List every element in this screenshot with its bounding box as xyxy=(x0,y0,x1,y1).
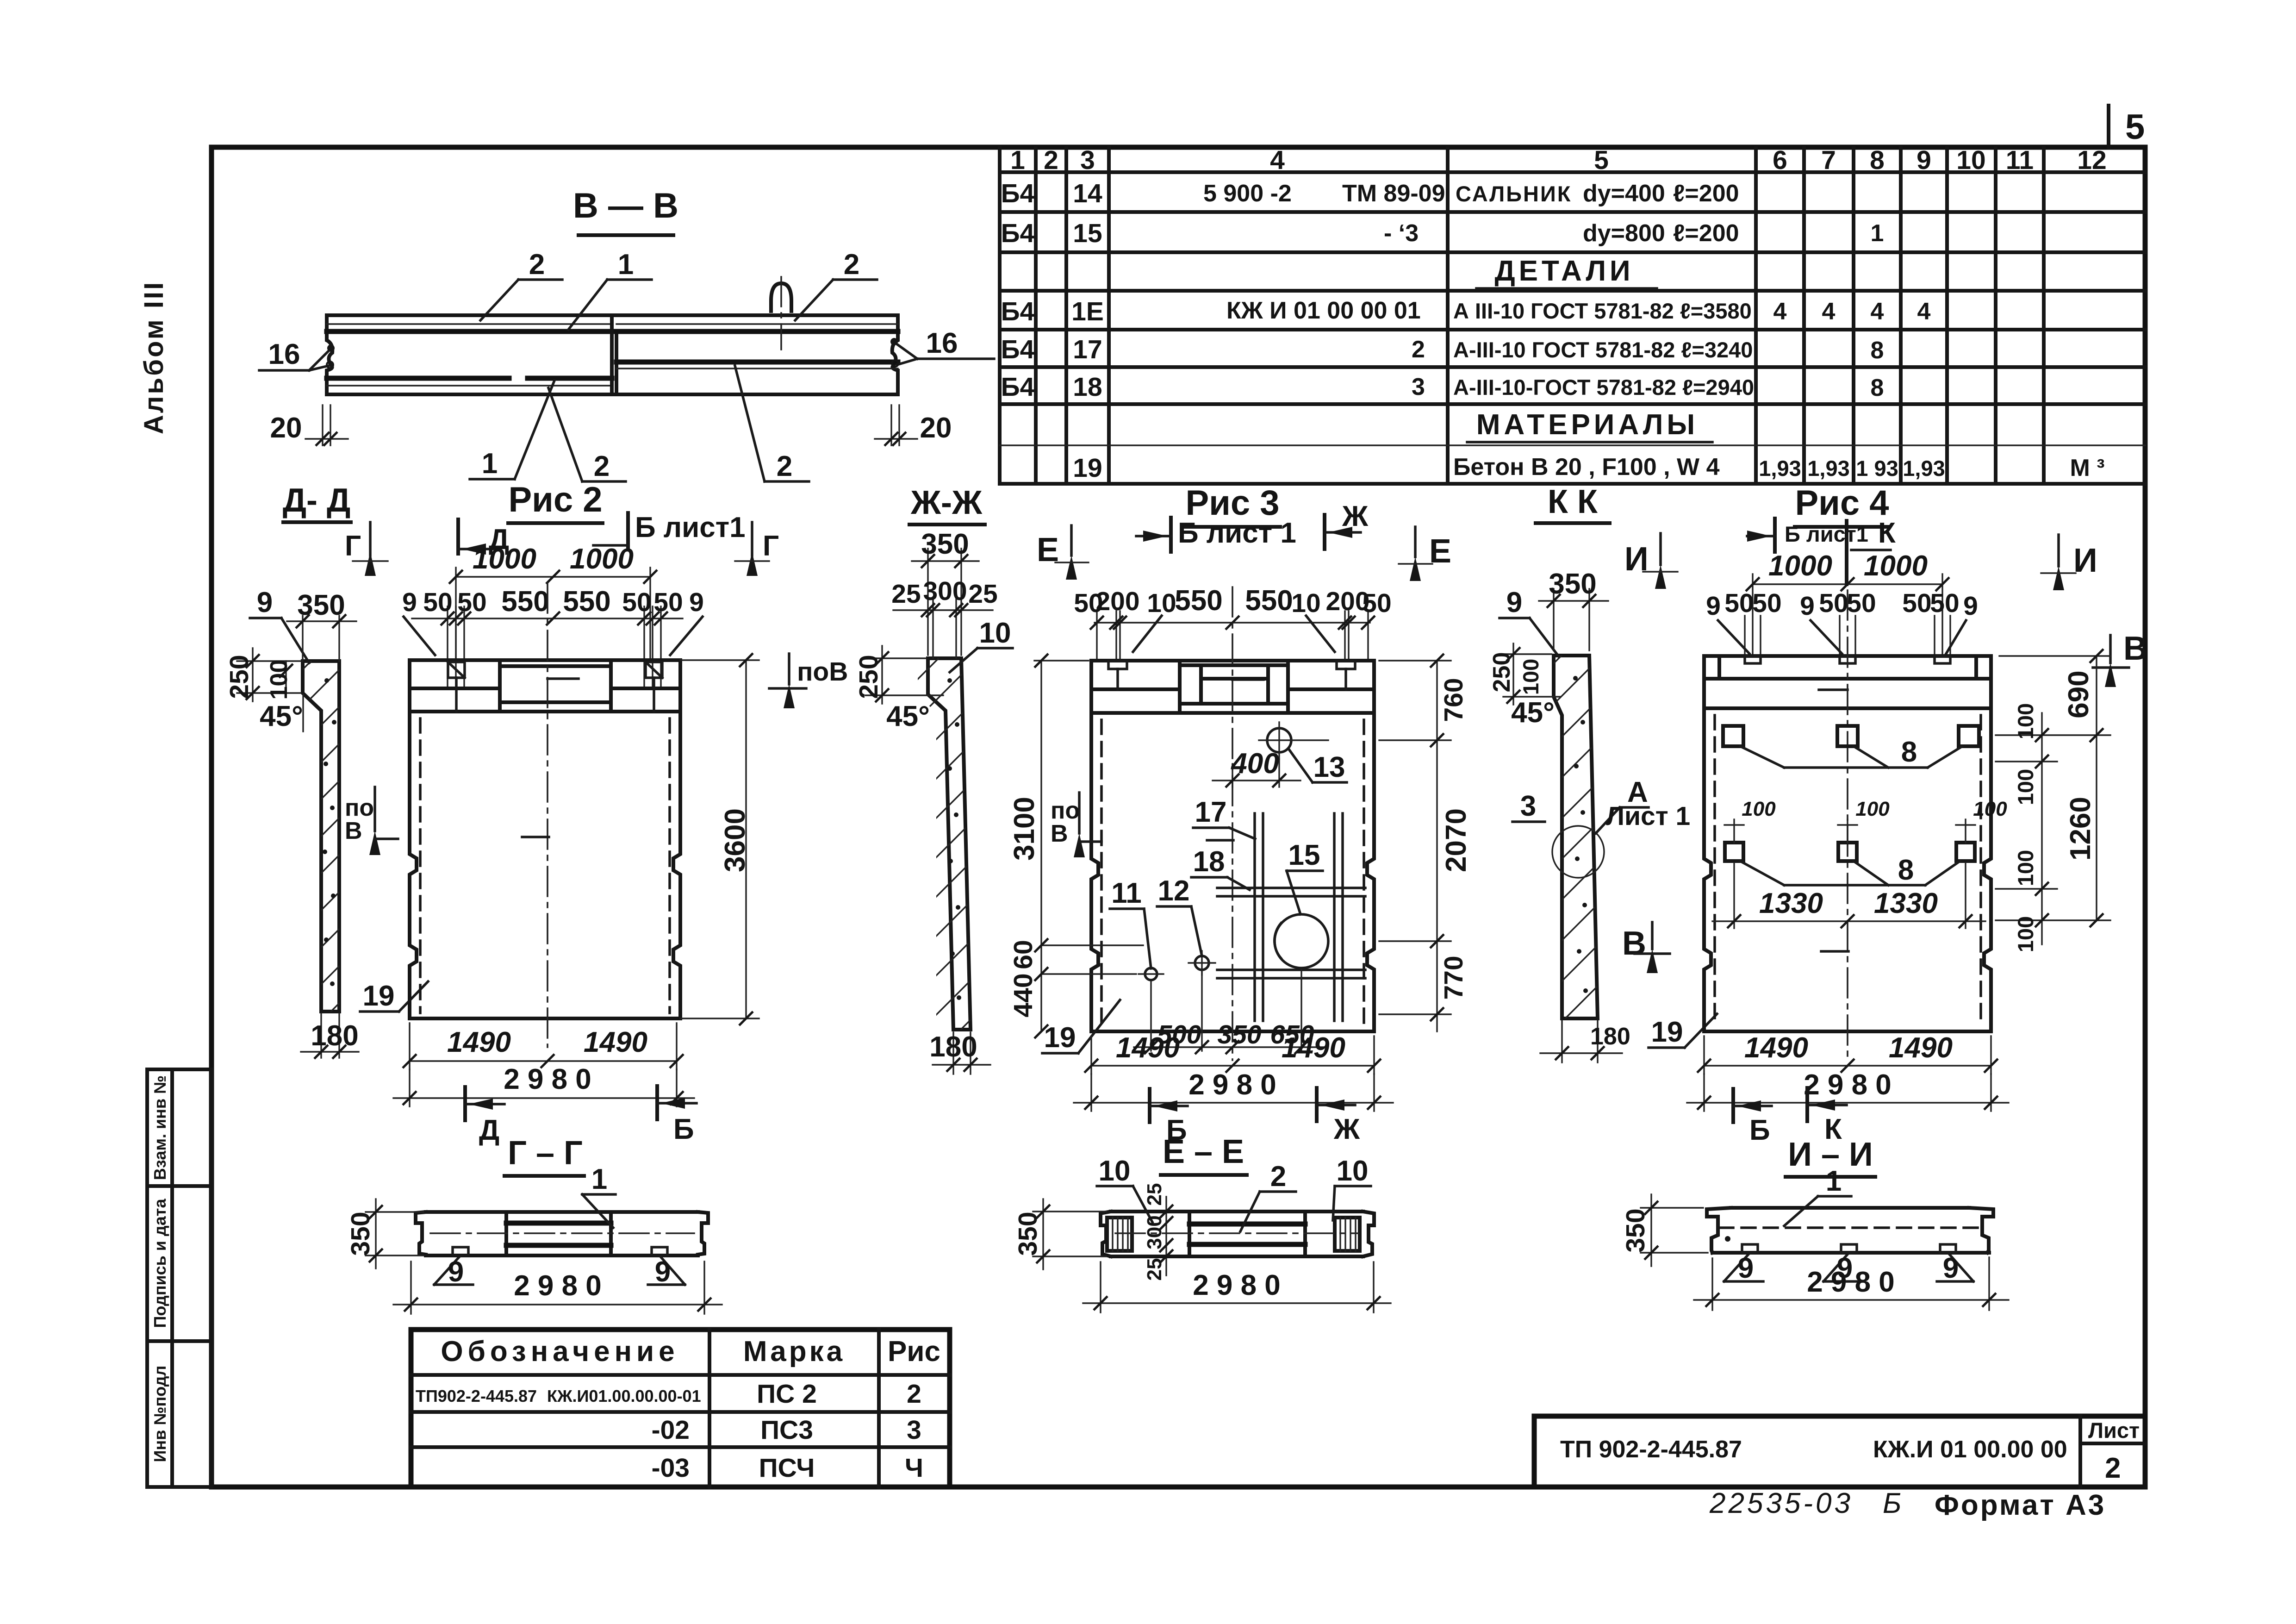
svg-text:180: 180 xyxy=(929,1031,977,1063)
svg-text:Лист 1: Лист 1 xyxy=(1606,801,1690,831)
dim 2980 (E-E) xyxy=(1100,1262,1101,1312)
svg-text:690: 690 xyxy=(2063,670,2095,718)
svg-text:А III-10 ГОСТ 5781-82 ℓ=358: А III-10 ГОСТ 5781-82 ℓ=3580 xyxy=(1453,299,1752,323)
marker B bottom (Ris3) xyxy=(1148,1089,1151,1122)
dim 350 (G-G) xyxy=(366,1211,423,1212)
anchor loops Ris2 xyxy=(448,662,662,712)
svg-text:4: 4 xyxy=(1270,145,1285,175)
svg-text:Б4: Б4 xyxy=(1001,179,1035,208)
svg-text:В: В xyxy=(1051,820,1068,847)
svg-text:1,93: 1,93 xyxy=(1807,456,1849,481)
svg-text:300: 300 xyxy=(923,576,967,606)
svg-text:2 9 8 0: 2 9 8 0 xyxy=(504,1063,591,1095)
svg-text:3600: 3600 xyxy=(719,808,751,872)
dims 760 2070 770 (Ris3 right) xyxy=(1379,660,1451,661)
marker Zh (Ris3 top) xyxy=(1323,515,1326,549)
svg-text:250: 250 xyxy=(1488,652,1515,693)
svg-text:760: 760 xyxy=(1439,678,1468,722)
svg-text:1490: 1490 xyxy=(584,1026,647,1058)
svg-text:-02: -02 xyxy=(652,1415,690,1445)
svg-text:2: 2 xyxy=(1044,145,1058,175)
svg-text:2: 2 xyxy=(1412,336,1425,363)
svg-text:550: 550 xyxy=(501,586,549,618)
svg-text:Д- Д: Д- Д xyxy=(283,482,351,519)
drawing frame xyxy=(212,147,2145,1487)
svg-text:50: 50 xyxy=(457,587,486,617)
section Zh-Zh hatched strip xyxy=(884,602,995,1224)
svg-text:1490: 1490 xyxy=(1116,1032,1180,1064)
dim 350 Zh-Zh xyxy=(927,549,928,655)
svg-text:1: 1 xyxy=(1826,1165,1842,1197)
svg-text:Обозначение: Обозначение xyxy=(441,1336,679,1368)
svg-text:1: 1 xyxy=(591,1163,607,1195)
dims 100 100 over row2 (Ris4) xyxy=(1724,819,1975,843)
svg-text:10: 10 xyxy=(1291,588,1320,618)
dim 1330 1330 (Ris4) xyxy=(1733,863,1735,928)
svg-text:50: 50 xyxy=(1752,588,1781,618)
leader 8 row2 (Ris4) xyxy=(1740,861,1784,885)
flag 9 left (G-G) xyxy=(434,1255,460,1285)
svg-text:2: 2 xyxy=(529,249,545,281)
section E-E slab xyxy=(1101,1212,1374,1256)
dim 1000 1000 (Ris2 top) xyxy=(456,576,650,577)
dim 2980 (Ris4) xyxy=(1703,1074,1705,1111)
dims 25 300 25 (E-E) xyxy=(1165,1197,1167,1275)
svg-text:19: 19 xyxy=(1044,1022,1076,1054)
svg-text:8: 8 xyxy=(1870,145,1885,175)
svg-text:550: 550 xyxy=(563,586,610,618)
svg-text:25: 25 xyxy=(1143,1183,1166,1206)
dim 350 (E-E) xyxy=(1033,1211,1106,1212)
svg-text:50: 50 xyxy=(1930,588,1959,618)
svg-text:Г: Г xyxy=(345,530,361,562)
svg-text:1490: 1490 xyxy=(447,1026,511,1058)
svg-text:Альбом III: Альбом III xyxy=(139,281,169,434)
svg-text:Формат А3: Формат А3 xyxy=(1935,1489,2106,1521)
svg-text:20: 20 xyxy=(920,412,952,444)
svg-text:9: 9 xyxy=(1963,591,1978,621)
dim 25 300 25 Zh-Zh xyxy=(932,597,933,658)
Ris2 plan top band xyxy=(410,660,680,712)
svg-text:Ж-Ж: Ж-Ж xyxy=(910,484,983,521)
svg-text:Инв №подл: Инв №подл xyxy=(150,1366,169,1462)
svg-text:180: 180 xyxy=(1590,1023,1630,1050)
svg-text:9: 9 xyxy=(1916,145,1931,175)
svg-text:12: 12 xyxy=(2077,145,2106,175)
svg-text:100: 100 xyxy=(2013,769,2038,805)
hole 11 (Ris3) xyxy=(1145,968,1157,980)
svg-text:8: 8 xyxy=(1871,375,1884,401)
dim 350 (I-I) xyxy=(1641,1207,1703,1208)
svg-text:550: 550 xyxy=(1175,585,1222,617)
svg-text:9: 9 xyxy=(1800,591,1815,621)
svg-text:45°: 45° xyxy=(1511,697,1555,729)
svg-text:2070: 2070 xyxy=(1440,808,1472,872)
svg-text:Б: Б xyxy=(1749,1114,1770,1146)
svg-text:Б: Б xyxy=(673,1113,694,1145)
svg-text:Марка: Марка xyxy=(743,1336,845,1368)
svg-text:350: 350 xyxy=(1549,568,1596,600)
svg-text:16: 16 xyxy=(268,338,300,370)
svg-text:100: 100 xyxy=(2013,916,2038,952)
dim 2980 (I-I) xyxy=(1711,1258,1713,1310)
svg-text:8: 8 xyxy=(1871,337,1884,364)
svg-text:50: 50 xyxy=(622,587,651,617)
svg-text:1260: 1260 xyxy=(2065,797,2097,861)
svg-text:12: 12 xyxy=(1158,875,1190,907)
svg-text:ТП902-2-445.87: ТП902-2-445.87 xyxy=(416,1387,537,1405)
lifting hook on B-B xyxy=(771,277,791,350)
svg-text:11: 11 xyxy=(1111,877,1142,909)
square holes row2 (Ris4) xyxy=(1725,843,1975,861)
section G-G slab xyxy=(416,1212,708,1255)
svg-text:25: 25 xyxy=(1143,1258,1166,1281)
svg-text:4: 4 xyxy=(1822,298,1836,325)
svg-text:5: 5 xyxy=(1594,145,1609,175)
svg-text:9: 9 xyxy=(448,1256,464,1288)
svg-text:Г – Г: Г – Г xyxy=(508,1135,583,1172)
dim 350 D-D xyxy=(302,616,303,661)
svg-text:25: 25 xyxy=(968,579,997,609)
svg-text:2 9 8 0: 2 9 8 0 xyxy=(1188,1069,1276,1101)
marker D bottom (Ris2) xyxy=(463,1087,467,1120)
svg-text:1: 1 xyxy=(618,249,634,281)
svg-text:14: 14 xyxy=(1073,179,1102,208)
svg-text:КЖ.И 01 00.00 00: КЖ.И 01 00.00 00 xyxy=(1873,1436,2067,1463)
svg-text:Лист: Лист xyxy=(2088,1418,2140,1443)
svg-text:350: 350 xyxy=(1013,1212,1043,1255)
svg-text:1000: 1000 xyxy=(473,543,536,575)
svg-text:17: 17 xyxy=(1195,796,1227,828)
svg-text:2: 2 xyxy=(907,1379,921,1409)
svg-text:В: В xyxy=(1622,925,1646,962)
flag 9 right (G-G) xyxy=(660,1255,685,1285)
svg-text:770: 770 xyxy=(1439,956,1468,999)
svg-text:18: 18 xyxy=(1193,846,1225,878)
svg-text:ПСЧ: ПСЧ xyxy=(759,1453,815,1483)
svg-text:200: 200 xyxy=(1095,587,1139,616)
dim 3100 and po V (Ris3 left) xyxy=(1040,661,1042,1031)
svg-text:ПС3: ПС3 xyxy=(760,1415,813,1445)
dim 180 K-K xyxy=(1561,1021,1562,1062)
svg-text:ТП 902-2-445.87: ТП 902-2-445.87 xyxy=(1560,1436,1742,1463)
svg-text:1 93: 1 93 xyxy=(1856,456,1898,481)
svg-text:В: В xyxy=(345,818,362,844)
svg-text:50: 50 xyxy=(1847,588,1876,618)
svg-text:4: 4 xyxy=(1917,298,1931,325)
svg-text:1000: 1000 xyxy=(1768,550,1832,582)
svg-text:9: 9 xyxy=(257,587,273,618)
big hole 15 (Ris3) xyxy=(1275,914,1328,968)
specification table bottom left xyxy=(411,1330,950,1487)
svg-text:ТМ 89-09: ТМ 89-09 xyxy=(1342,180,1445,207)
svg-text:100: 100 xyxy=(1973,798,2007,820)
svg-text:Б лист1: Б лист1 xyxy=(1785,522,1868,546)
svg-text:8: 8 xyxy=(1898,854,1914,886)
dim 180 D-D xyxy=(320,1014,322,1058)
dims 500 350 650 (Ris3 bottom) xyxy=(1150,981,1151,1051)
section I-I slab xyxy=(1707,1208,1993,1253)
dim row 9 50 50 550 550 50 50 9 (Ris2) xyxy=(412,618,683,619)
svg-text:5: 5 xyxy=(2125,107,2145,147)
svg-text:50: 50 xyxy=(1902,588,1931,618)
svg-text:16: 16 xyxy=(926,327,958,359)
dim 2980 (Ris3) xyxy=(1090,1074,1092,1111)
svg-text:Г: Г xyxy=(763,530,779,562)
dim 1000 1000 (Ris4 top) xyxy=(1753,583,1942,585)
marker D top (Ris2) xyxy=(456,519,460,554)
marker B list1 (Ris4 top) xyxy=(1773,518,1777,552)
svg-text:350: 350 xyxy=(1621,1208,1650,1252)
svg-text:К: К xyxy=(1878,517,1896,549)
detail circle A List1 (K-K) xyxy=(1552,826,1604,878)
svg-text:1,93: 1,93 xyxy=(1759,456,1801,481)
svg-text:10: 10 xyxy=(1956,145,1985,175)
svg-text:dу=800: dу=800 xyxy=(1583,220,1665,247)
svg-text:100: 100 xyxy=(1518,659,1543,695)
svg-text:В: В xyxy=(2123,630,2147,667)
svg-text:1: 1 xyxy=(1010,145,1025,175)
svg-text:Бетон В 20 , F100 , W 4: Бетон В 20 , F100 , W 4 xyxy=(1453,454,1720,481)
svg-text:ДЕТАЛИ: ДЕТАЛИ xyxy=(1494,255,1634,287)
svg-text:3100: 3100 xyxy=(1008,797,1040,861)
marker B list1 top (Ris2) xyxy=(626,513,630,547)
svg-text:19: 19 xyxy=(1651,1016,1683,1048)
svg-text:1490: 1490 xyxy=(1744,1032,1808,1064)
svg-text:ℓ=200: ℓ=200 xyxy=(1673,220,1739,247)
svg-text:60: 60 xyxy=(1008,940,1038,969)
svg-text:поВ: поВ xyxy=(797,657,848,687)
po V marker right of Ris2 xyxy=(769,654,848,708)
dim row 9 50 50 x3 (Ris4) xyxy=(1745,616,1950,656)
svg-text:50: 50 xyxy=(1362,588,1391,618)
svg-text:КЖ И 01 00 00 01: КЖ И 01 00 00 01 xyxy=(1226,297,1421,324)
svg-text:САЛЬНИК: САЛЬНИК xyxy=(1456,181,1572,206)
svg-text:7: 7 xyxy=(1821,145,1836,175)
svg-text:100: 100 xyxy=(1742,798,1776,820)
square holes row1 (Ris4) xyxy=(1723,726,1979,746)
dim 20 left of B-B xyxy=(270,405,348,446)
dim row 50 200 10 550 550 10 200 50 (Ris3 top) xyxy=(1095,622,1370,623)
svg-text:1330: 1330 xyxy=(1874,887,1938,919)
svg-text:2 9 8 0: 2 9 8 0 xyxy=(1804,1069,1892,1101)
section D-D hatched strip xyxy=(259,602,370,1120)
left stamp column xyxy=(147,1069,212,1487)
svg-text:1490: 1490 xyxy=(1282,1032,1345,1064)
svg-text:Ж: Ж xyxy=(1342,500,1369,532)
svg-text:А-III-10 ГОСТ 5781-82 ℓ=3240: А-III-10 ГОСТ 5781-82 ℓ=3240 xyxy=(1453,337,1753,362)
svg-text:2: 2 xyxy=(1270,1161,1286,1193)
svg-text:Рис: Рис xyxy=(888,1336,940,1368)
marker K bottom (Ris4) xyxy=(1805,1088,1809,1121)
svg-text:15: 15 xyxy=(1073,219,1102,248)
svg-text:Б: Б xyxy=(1883,1487,1901,1519)
svg-text:dу=400: dу=400 xyxy=(1583,180,1665,207)
svg-text:М ³: М ³ xyxy=(2070,455,2104,481)
svg-text:350: 350 xyxy=(921,528,969,560)
svg-text:Рис 2: Рис 2 xyxy=(508,480,602,519)
dim 400 and label 13 (Ris3) xyxy=(1232,764,1233,787)
svg-text:2 9 8 0: 2 9 8 0 xyxy=(1807,1266,1895,1298)
svg-text:2: 2 xyxy=(2105,1452,2121,1484)
marker B bottom (Ris4) xyxy=(1731,1089,1735,1122)
svg-text:Б лист1: Б лист1 xyxy=(635,512,746,543)
svg-text:350: 350 xyxy=(297,589,345,621)
svg-text:9: 9 xyxy=(1943,1252,1959,1284)
svg-text:Б4: Б4 xyxy=(1001,219,1035,248)
dim 180 Zh-Zh xyxy=(952,1032,954,1074)
dims 60 440 (Ris3 left bottom) xyxy=(1041,944,1143,946)
dims 250 100 D-D xyxy=(237,660,301,662)
svg-text:550: 550 xyxy=(1245,585,1293,617)
svg-text:4: 4 xyxy=(1871,298,1884,325)
svg-text:ℓ=200: ℓ=200 xyxy=(1673,180,1739,207)
svg-text:100: 100 xyxy=(2013,703,2038,739)
svg-text:Б4: Б4 xyxy=(1001,372,1035,402)
svg-text:Рис 4: Рис 4 xyxy=(1795,483,1889,523)
svg-text:МАТЕРИАЛЫ: МАТЕРИАЛЫ xyxy=(1476,409,1699,441)
svg-text:11: 11 xyxy=(2006,145,2034,175)
svg-text:10: 10 xyxy=(979,617,1011,649)
svg-text:9: 9 xyxy=(689,587,704,617)
hole 12 (Ris3) xyxy=(1195,956,1209,970)
svg-text:19: 19 xyxy=(1073,453,1102,483)
svg-text:8: 8 xyxy=(1901,736,1917,768)
svg-text:250: 250 xyxy=(854,655,884,699)
svg-text:45°: 45° xyxy=(260,700,303,732)
svg-text:E – E: E – E xyxy=(1163,1133,1244,1170)
svg-text:19: 19 xyxy=(363,980,395,1012)
svg-text:50: 50 xyxy=(653,587,683,617)
parts table grid xyxy=(1000,148,2145,484)
svg-text:50: 50 xyxy=(1724,588,1754,618)
Ris3 plan top band xyxy=(1091,661,1374,713)
section K-K hatched strip xyxy=(1509,593,1624,1238)
svg-text:1: 1 xyxy=(1871,220,1884,247)
svg-text:9: 9 xyxy=(402,587,417,617)
leader 8 row1 (Ris4) xyxy=(1740,746,1784,768)
svg-text:17: 17 xyxy=(1073,335,1102,364)
svg-text:Взам. инв №: Взам. инв № xyxy=(150,1075,169,1180)
dim 2980 (Ris2 bottom) xyxy=(409,1069,410,1106)
svg-text:2: 2 xyxy=(594,450,610,482)
flag 9 x3 (I-I) xyxy=(1724,1253,1750,1281)
svg-text:Д: Д xyxy=(479,1114,499,1146)
svg-text:Б4: Б4 xyxy=(1001,335,1035,364)
svg-text:9: 9 xyxy=(1738,1252,1754,1284)
svg-text:2: 2 xyxy=(777,450,792,482)
svg-text:Б4: Б4 xyxy=(1001,297,1035,326)
svg-text:3: 3 xyxy=(1412,374,1425,400)
svg-text:50: 50 xyxy=(423,587,452,617)
dim 1490 1490 (Ris2 bottom) xyxy=(409,1023,410,1069)
svg-text:6: 6 xyxy=(1773,145,1787,175)
dim 250 Zh-Zh xyxy=(865,657,926,659)
svg-text:Подпись и дата: Подпись и дата xyxy=(150,1199,169,1328)
Ris3 plan body xyxy=(1091,587,1374,1060)
page number 5 xyxy=(2107,106,2110,147)
svg-text:3: 3 xyxy=(1080,145,1095,175)
dims 250 100 (K-K left) xyxy=(1503,653,1551,655)
svg-text:ПС 2: ПС 2 xyxy=(757,1379,817,1409)
svg-text:2: 2 xyxy=(844,249,859,281)
svg-text:А-III-10-ГОСТ 5781-82 ℓ=2940: А-III-10-ГОСТ 5781-82 ℓ=2940 xyxy=(1453,375,1754,400)
svg-text:4: 4 xyxy=(1773,298,1787,325)
svg-text:10: 10 xyxy=(1337,1155,1369,1187)
svg-text:10: 10 xyxy=(1099,1155,1131,1187)
Ris4 plan body xyxy=(1704,590,1991,1060)
svg-text:1: 1 xyxy=(482,448,498,480)
dim 3600 (Ris2 right) xyxy=(680,659,759,661)
svg-text:9: 9 xyxy=(1706,591,1721,621)
svg-text:- ʻ3: - ʻ3 xyxy=(1384,220,1419,247)
svg-text:1330: 1330 xyxy=(1759,887,1823,919)
svg-text:15: 15 xyxy=(1288,839,1320,871)
parts table rows text xyxy=(1001,179,1104,483)
dims 690 1260 100s (Ris4 right) xyxy=(1999,655,2110,656)
svg-text:250: 250 xyxy=(224,655,254,699)
svg-text:1490: 1490 xyxy=(1889,1032,1953,1064)
svg-text:50: 50 xyxy=(1819,588,1848,618)
Ris4 plan top band xyxy=(1704,656,1991,708)
svg-text:440: 440 xyxy=(1008,973,1038,1017)
svg-text:К К: К К xyxy=(1548,483,1598,520)
svg-text:Ж: Ж xyxy=(1333,1113,1360,1145)
svg-text:9: 9 xyxy=(1506,587,1522,618)
svg-text:400: 400 xyxy=(1230,748,1279,780)
svg-text:20: 20 xyxy=(270,412,302,444)
svg-text:3: 3 xyxy=(1520,790,1536,822)
parts table header numbers xyxy=(1010,145,2107,175)
svg-text:1,93: 1,93 xyxy=(1903,456,1945,481)
svg-text:9: 9 xyxy=(655,1256,671,1288)
dim 1490 1490 (Ris3) xyxy=(1090,1036,1092,1074)
svg-text:100: 100 xyxy=(266,660,292,700)
svg-text:13: 13 xyxy=(1313,751,1345,783)
title block xyxy=(1534,1416,2145,1487)
svg-text:Б лист 1: Б лист 1 xyxy=(1178,517,1296,549)
svg-text:1Е: 1Е xyxy=(1071,297,1104,326)
svg-text:100: 100 xyxy=(2013,850,2038,886)
svg-text:18: 18 xyxy=(1073,372,1102,402)
section B-B slab outline xyxy=(327,315,898,394)
svg-text:300: 300 xyxy=(1143,1215,1166,1249)
rebar 18 (horizontal pairs) xyxy=(1217,888,1365,978)
dim 1490 1490 (Ris4) xyxy=(1703,1036,1705,1074)
svg-text:И: И xyxy=(2073,542,2097,579)
svg-text:25: 25 xyxy=(891,579,921,609)
svg-text:2 9 8 0: 2 9 8 0 xyxy=(514,1270,602,1302)
svg-text:КЖ.И01.00.00.00-01: КЖ.И01.00.00.00-01 xyxy=(547,1387,701,1405)
svg-text:Ч: Ч xyxy=(905,1453,923,1483)
svg-text:22535-03: 22535-03 xyxy=(1709,1487,1853,1519)
svg-text:1000: 1000 xyxy=(570,543,634,575)
svg-text:180: 180 xyxy=(311,1020,358,1052)
dim 2980 (G-G) xyxy=(410,1262,411,1314)
svg-text:350: 350 xyxy=(346,1212,375,1255)
svg-text:5 900 -2: 5 900 -2 xyxy=(1203,180,1292,207)
svg-text:350: 350 xyxy=(1217,1020,1261,1049)
svg-text:В — В: В — В xyxy=(573,186,678,225)
svg-text:2 9 8 0: 2 9 8 0 xyxy=(1193,1269,1281,1301)
svg-text:1000: 1000 xyxy=(1864,550,1928,582)
svg-text:3: 3 xyxy=(907,1415,921,1445)
marker Zh bottom (Ris3) xyxy=(1315,1088,1319,1121)
marker B bottom (Ris2) xyxy=(655,1086,659,1119)
Ris2 plan body xyxy=(410,583,680,1047)
hole 13 (Ris3) xyxy=(1259,722,1328,759)
svg-text:100: 100 xyxy=(1855,798,1890,820)
